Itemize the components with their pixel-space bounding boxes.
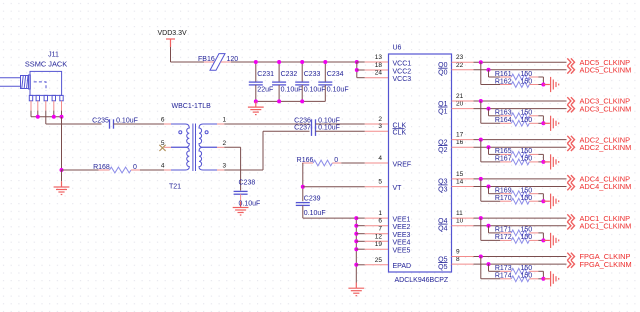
junction xyxy=(36,115,40,119)
wire R166 to U6 pin 4 VREF xyxy=(341,162,365,164)
svg-text:17: 17 xyxy=(456,132,464,139)
svg-text:C232: C232 xyxy=(281,71,298,78)
svg-text:R174: R174 xyxy=(495,273,512,280)
svg-text:VCC3: VCC3 xyxy=(393,76,412,83)
net ADC2_CLKINP wire xyxy=(452,139,474,141)
svg-text:8: 8 xyxy=(456,256,460,263)
svg-text:FPGA_CLKINM: FPGA_CLKINM xyxy=(580,260,632,269)
svg-text:150: 150 xyxy=(521,78,533,85)
junction xyxy=(354,232,358,236)
ground (termination FPGA) xyxy=(543,271,558,286)
wire FB16 to VCC rail xyxy=(221,61,231,63)
T21 pin 5 stub xyxy=(164,146,171,148)
off-page connector ADC5_CLKINM xyxy=(567,66,574,74)
junction xyxy=(60,115,64,119)
ground (termination ADC5) xyxy=(543,77,558,92)
svg-text:21: 21 xyxy=(456,93,464,100)
svg-text:150: 150 xyxy=(521,265,533,272)
svg-text:16: 16 xyxy=(456,139,464,146)
resistor R161 150 xyxy=(500,76,511,78)
svg-text:2: 2 xyxy=(378,116,382,123)
junction xyxy=(487,107,491,111)
junction xyxy=(301,185,305,189)
off-page connector ADC2_CLKINM xyxy=(567,143,574,151)
capacitor C234 0.10uF xyxy=(324,62,326,82)
wire jack shield down xyxy=(61,117,63,170)
capacitor C238 0.10uF xyxy=(234,191,248,194)
svg-text:0.10uF: 0.10uF xyxy=(304,210,326,217)
resistor R174 150 xyxy=(500,278,511,280)
resistor R169 150 xyxy=(500,193,511,195)
ground (termination ADC2) xyxy=(543,154,558,169)
svg-text:ADC1_CLKINM: ADC1_CLKINM xyxy=(580,221,632,230)
ground (termination ADC4) xyxy=(543,194,558,209)
svg-text:0.10uF: 0.10uF xyxy=(318,125,340,132)
junction xyxy=(487,262,491,266)
off-page connector ADC2_CLKINP xyxy=(567,136,574,144)
junction xyxy=(354,216,358,220)
svg-text:14: 14 xyxy=(456,179,464,186)
wire P tap down to R172 xyxy=(480,218,482,240)
capacitor C233 0.10uF xyxy=(301,62,303,82)
junction xyxy=(487,224,491,228)
wire M tap down to R171 xyxy=(488,226,490,233)
wire VT branch to U6 pin 5 xyxy=(303,186,365,188)
resistor R168 0 ohm xyxy=(99,169,110,171)
net ADC2_CLKINM wire xyxy=(452,146,474,148)
wire P tap down to R164 xyxy=(480,101,482,123)
wire M tap down to R165 xyxy=(488,147,490,154)
capacitor C232 0.10uF xyxy=(278,62,280,82)
off-page connector ADC4_CLKINM xyxy=(567,183,574,191)
svg-text:150: 150 xyxy=(521,71,533,78)
wire EPAD xyxy=(356,264,365,266)
transformer T21 WBC1-1TLB xyxy=(171,124,217,172)
off-page connector ADC1_CLKINP xyxy=(567,214,574,222)
net ADC5_CLKINM wire xyxy=(452,69,474,71)
svg-text:VEE5: VEE5 xyxy=(393,248,411,255)
capacitor C239 0.10uF xyxy=(296,203,310,206)
svg-text:150: 150 xyxy=(521,148,533,155)
svg-text:150: 150 xyxy=(521,110,533,117)
svg-text:150: 150 xyxy=(521,156,533,163)
resistor R172 150 xyxy=(500,239,511,241)
svg-text:VEE3: VEE3 xyxy=(393,232,411,239)
net ADC1_CLKINP wire xyxy=(452,217,474,219)
svg-text:Q3: Q3 xyxy=(438,186,447,193)
wire R163 to junction xyxy=(542,116,544,124)
off-page connector ADC5_CLKINP xyxy=(567,58,574,66)
wire VDD to FB16 xyxy=(170,47,172,62)
junction xyxy=(60,168,64,172)
svg-text:0: 0 xyxy=(133,164,137,171)
svg-text:CLK: CLK xyxy=(393,130,407,137)
junction xyxy=(479,138,483,142)
svg-text:0: 0 xyxy=(334,157,338,164)
off-page connector ADC3_CLKINP xyxy=(567,97,574,105)
junction xyxy=(479,60,483,64)
svg-text:11: 11 xyxy=(456,210,463,217)
net ADC3_CLKINP wire xyxy=(452,100,474,102)
svg-text:Q0: Q0 xyxy=(438,70,447,77)
wire P tap down to R170 xyxy=(480,179,482,201)
svg-text:J11: J11 xyxy=(48,52,59,59)
off-page connector ADC1_CLKINM xyxy=(567,222,574,230)
resistor R163 150 xyxy=(500,115,511,117)
junction xyxy=(541,121,545,125)
wire M tap down to R173 xyxy=(488,264,490,271)
svg-text:C237: C237 xyxy=(294,125,311,132)
svg-text:C233: C233 xyxy=(304,71,321,78)
wire C235 to T21 pin 6 xyxy=(114,123,165,125)
wire P tap down to R162 xyxy=(480,62,482,84)
svg-text:EPAD: EPAD xyxy=(393,263,412,270)
off-page connector ADC3_CLKINM xyxy=(567,105,574,113)
svg-text:R163: R163 xyxy=(495,110,512,117)
capacitor C235 0.10uF xyxy=(110,119,114,128)
svg-text:0.10uF: 0.10uF xyxy=(281,87,303,94)
svg-text:R173: R173 xyxy=(495,265,512,272)
svg-text:13: 13 xyxy=(375,54,383,61)
wire R169 to junction xyxy=(542,194,544,202)
resistor R170 150 xyxy=(500,200,511,202)
off-page connector FPGA_CLKINP xyxy=(567,253,574,261)
junction xyxy=(354,239,358,243)
ground (jack shield) xyxy=(54,181,70,194)
svg-text:1: 1 xyxy=(223,117,227,124)
svg-text:2: 2 xyxy=(223,140,227,147)
wire jack center pin to C235 xyxy=(45,117,47,124)
svg-text:Q1: Q1 xyxy=(438,108,447,115)
svg-text:ADC4_CLKINM: ADC4_CLKINM xyxy=(580,182,632,191)
svg-text:R172: R172 xyxy=(495,234,512,241)
junction xyxy=(355,68,359,72)
wire T21 pin3 to C237 xyxy=(217,169,224,171)
svg-text:150: 150 xyxy=(521,273,533,280)
wire M tap down to R169 xyxy=(488,187,490,194)
svg-text:C238: C238 xyxy=(239,179,256,186)
wire C239 to VEE rail xyxy=(302,205,304,218)
wire R165 to junction xyxy=(542,154,544,162)
svg-text:150: 150 xyxy=(521,188,533,195)
capacitor C237 0.10uF xyxy=(312,127,316,136)
net ADC3_CLKINM wire xyxy=(452,108,474,110)
net ADC1_CLKINM wire xyxy=(452,225,474,227)
junction xyxy=(323,60,327,64)
svg-text:C231: C231 xyxy=(257,71,274,78)
ground (VEE) xyxy=(348,283,364,296)
svg-text:R166: R166 xyxy=(297,157,314,164)
svg-text:R164: R164 xyxy=(495,117,512,124)
svg-text:0.10uF: 0.10uF xyxy=(304,87,326,94)
net ADC5_CLKINP wire xyxy=(452,61,474,63)
junction xyxy=(300,99,304,103)
IC U6 ADCLK946BCPZ xyxy=(389,54,452,272)
svg-text:VT: VT xyxy=(393,185,403,192)
wire R173 to junction xyxy=(542,271,544,279)
connector J11 SSMC JACK xyxy=(0,71,63,100)
wire C236 to U6 pin 2 xyxy=(316,123,365,125)
resistor R166 0 ohm xyxy=(302,162,313,164)
svg-text:24: 24 xyxy=(375,70,383,77)
resistor R162 150 xyxy=(500,84,511,86)
wire P tap down to R167 xyxy=(480,140,482,162)
svg-text:0.10uF: 0.10uF xyxy=(327,87,349,94)
resistor R171 150 xyxy=(500,232,511,234)
junction xyxy=(355,60,359,64)
junction xyxy=(479,99,483,103)
wire M tap down to R161 xyxy=(488,70,490,77)
svg-text:ADC3_CLKINM: ADC3_CLKINM xyxy=(580,104,632,113)
svg-text:3: 3 xyxy=(223,163,227,170)
svg-text:22: 22 xyxy=(456,62,464,69)
svg-text:150: 150 xyxy=(521,227,533,234)
svg-text:R169: R169 xyxy=(495,188,512,195)
wire jack ground bus xyxy=(31,116,62,118)
junction xyxy=(300,60,304,64)
off-page connector ADC4_CLKINP xyxy=(567,175,574,183)
junction xyxy=(541,83,545,87)
svg-text:VEE4: VEE4 xyxy=(393,240,411,247)
wire cap bank bottom rail xyxy=(256,100,325,102)
junction xyxy=(52,115,56,119)
svg-text:VREF: VREF xyxy=(393,161,412,168)
svg-text:VEE2: VEE2 xyxy=(393,224,411,231)
svg-text:9: 9 xyxy=(456,249,460,256)
svg-text:15: 15 xyxy=(456,171,464,178)
junction xyxy=(541,238,545,242)
svg-text:10: 10 xyxy=(456,218,464,225)
junction xyxy=(479,255,483,259)
svg-text:7: 7 xyxy=(378,226,382,233)
svg-text:R162: R162 xyxy=(495,78,512,85)
no-connect X on T21 pin 5 xyxy=(159,145,165,151)
svg-text:U6: U6 xyxy=(393,45,402,52)
junction xyxy=(254,99,258,103)
wire R161 to junction xyxy=(542,77,544,85)
svg-text:6: 6 xyxy=(161,117,165,124)
junction xyxy=(541,199,545,203)
svg-text:6: 6 xyxy=(378,218,382,225)
svg-text:C239: C239 xyxy=(304,195,321,202)
wire VEE rail xyxy=(355,218,357,282)
svg-text:1: 1 xyxy=(378,210,382,217)
ground (termination ADC3) xyxy=(543,116,558,131)
wire T21 pin2 to C238 xyxy=(217,146,224,148)
svg-text:150: 150 xyxy=(521,195,533,202)
svg-text:R167: R167 xyxy=(495,156,512,163)
svg-text:ADC2_CLKINM: ADC2_CLKINM xyxy=(580,143,632,152)
junction xyxy=(254,60,258,64)
wire P tap down to R174 xyxy=(480,257,482,279)
junction xyxy=(487,68,491,72)
wire ground to R168 xyxy=(62,169,99,171)
svg-text:23: 23 xyxy=(456,54,464,61)
ground (cap bank) xyxy=(248,101,264,114)
capacitor C236 0.10uF xyxy=(312,119,316,128)
svg-text:FB16: FB16 xyxy=(198,56,215,63)
svg-text:VDD3.3V: VDD3.3V xyxy=(158,30,188,37)
junction xyxy=(541,277,545,281)
svg-text:12: 12 xyxy=(375,233,383,240)
svg-text:T21: T21 xyxy=(169,184,181,191)
junction xyxy=(354,247,358,251)
junction xyxy=(354,224,358,228)
svg-text:18: 18 xyxy=(375,62,383,69)
svg-text:R165: R165 xyxy=(495,148,512,155)
svg-text:19: 19 xyxy=(375,241,383,248)
junction xyxy=(479,216,483,220)
svg-text:WBC1-1TLB: WBC1-1TLB xyxy=(172,103,212,110)
capacitor C231 22uF xyxy=(255,62,257,82)
resistor R173 150 xyxy=(500,270,511,272)
ferrite bead FB16 120 xyxy=(210,54,225,71)
svg-text:VEE1: VEE1 xyxy=(393,216,411,223)
junction xyxy=(277,60,281,64)
svg-text:4: 4 xyxy=(378,155,382,162)
svg-text:VCC1: VCC1 xyxy=(393,60,412,67)
svg-text:Q4: Q4 xyxy=(438,226,447,233)
net ADC4_CLKINP wire xyxy=(452,178,474,180)
svg-text:C236: C236 xyxy=(294,117,311,124)
svg-text:ADC5_CLKINM: ADC5_CLKINM xyxy=(580,66,632,75)
svg-text:0.10uF: 0.10uF xyxy=(318,117,340,124)
wire C237 to U6 pin 3 xyxy=(316,130,365,132)
svg-text:C235: C235 xyxy=(92,117,109,124)
wire T21 pin1 to C236 xyxy=(217,123,224,125)
resistor R167 150 xyxy=(500,161,511,163)
svg-text:5: 5 xyxy=(378,179,382,186)
junction xyxy=(541,160,545,164)
svg-text:C234: C234 xyxy=(327,71,344,78)
junction xyxy=(354,263,358,267)
svg-text:Q2: Q2 xyxy=(438,147,447,154)
svg-text:R161: R161 xyxy=(495,71,512,78)
wire R171 to junction xyxy=(542,233,544,241)
svg-text:ADCLK946BCPZ: ADCLK946BCPZ xyxy=(395,277,449,284)
ground (termination ADC1) xyxy=(543,233,558,248)
svg-text:R171: R171 xyxy=(495,227,512,234)
resistor R165 150 xyxy=(500,153,511,155)
svg-text:150: 150 xyxy=(521,234,533,241)
resistor R164 150 xyxy=(500,122,511,124)
junction xyxy=(487,145,491,149)
svg-text:3: 3 xyxy=(378,123,382,130)
svg-text:0.10uF: 0.10uF xyxy=(116,117,138,124)
svg-text:150: 150 xyxy=(521,117,533,124)
junction xyxy=(277,99,281,103)
svg-text:VCC2: VCC2 xyxy=(393,68,412,75)
wire R168 to T21 pin 4 xyxy=(140,169,164,171)
svg-text:SSMC JACK: SSMC JACK xyxy=(25,60,67,69)
svg-text:20: 20 xyxy=(456,101,464,108)
svg-text:25: 25 xyxy=(375,257,383,264)
junction xyxy=(487,185,491,189)
ground (C238) xyxy=(233,202,249,215)
wire R166 left down to VT / C239 xyxy=(302,163,304,201)
wire M tap down to R163 xyxy=(488,109,490,116)
net FPGA_CLKINP wire xyxy=(452,256,474,258)
net ADC4_CLKINM wire xyxy=(452,186,474,188)
svg-text:R170: R170 xyxy=(495,195,512,202)
svg-text:22uF: 22uF xyxy=(257,87,273,94)
off-page connector FPGA_CLKINM xyxy=(567,260,574,268)
svg-text:CLK: CLK xyxy=(393,122,407,129)
J11 pin stubs xyxy=(30,101,32,111)
svg-text:Q5: Q5 xyxy=(438,264,447,271)
junction xyxy=(479,177,483,181)
svg-text:4: 4 xyxy=(161,163,165,170)
net FPGA_CLKINM wire xyxy=(452,263,474,265)
svg-text:0.10uF: 0.10uF xyxy=(239,200,261,207)
